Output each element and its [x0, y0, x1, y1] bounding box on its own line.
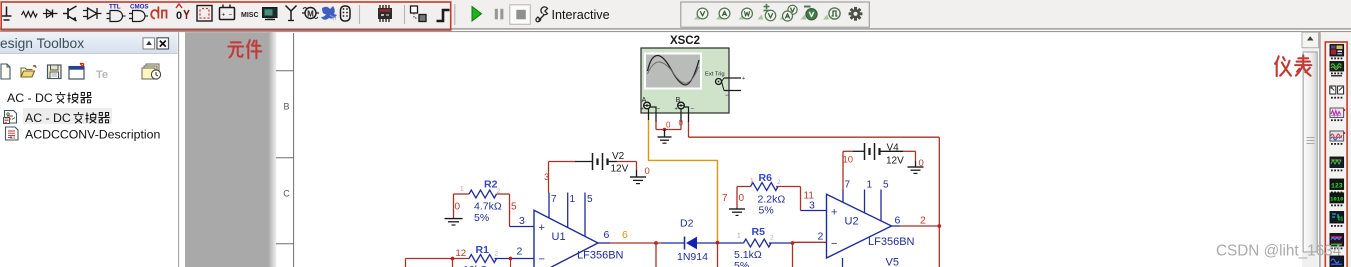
- svg-text:12V: 12V: [611, 164, 629, 175]
- svg-text:2: 2: [777, 179, 781, 186]
- svg-text:5%: 5%: [474, 212, 489, 224]
- svg-text:7: 7: [845, 180, 851, 191]
- svg-text:+: +: [539, 222, 545, 234]
- svg-text:Interactive: Interactive: [552, 8, 610, 22]
- svg-text:−: −: [657, 107, 661, 113]
- svg-text:6: 6: [622, 229, 628, 241]
- svg-text:54: 54: [10, 135, 16, 140]
- svg-text:5: 5: [587, 194, 593, 205]
- svg-text:2: 2: [920, 215, 926, 227]
- svg-text:V2: V2: [612, 151, 625, 162]
- svg-text:C: C: [283, 189, 290, 199]
- svg-text:6: 6: [604, 229, 610, 241]
- svg-text:−: −: [539, 254, 545, 266]
- svg-text:01: 01: [1338, 217, 1344, 223]
- svg-text:Ext Trig: Ext Trig: [705, 72, 725, 78]
- svg-text:1: 1: [750, 178, 754, 185]
- svg-text:R1: R1: [476, 244, 490, 256]
- svg-text:10: 10: [843, 155, 854, 166]
- svg-text:6: 6: [895, 215, 901, 227]
- svg-text:2: 2: [770, 235, 774, 242]
- svg-text:1: 1: [867, 180, 873, 191]
- svg-text:0: 0: [919, 158, 924, 169]
- svg-text:U2: U2: [845, 216, 859, 228]
- svg-text:AC - DC: AC - DC: [25, 111, 71, 125]
- svg-text:B: B: [283, 102, 289, 112]
- svg-text:7: 7: [551, 194, 557, 205]
- svg-text:−: −: [831, 238, 837, 250]
- svg-text:LF356BN: LF356BN: [577, 250, 624, 262]
- svg-text:−: −: [725, 93, 729, 99]
- svg-text:12: 12: [456, 248, 467, 259]
- svg-text:2: 2: [818, 231, 824, 243]
- svg-text:5: 5: [883, 180, 889, 191]
- svg-text:MISC: MISC: [241, 12, 259, 19]
- svg-text:123: 123: [1331, 183, 1343, 190]
- svg-text:1N914: 1N914: [677, 251, 708, 263]
- svg-text:5: 5: [511, 202, 517, 213]
- svg-text:1: 1: [737, 233, 741, 240]
- svg-text:0: 0: [739, 193, 745, 204]
- svg-text:1010: 1010: [1330, 196, 1344, 203]
- svg-text:7: 7: [722, 193, 728, 204]
- svg-text:n: n: [333, 17, 336, 23]
- svg-text:2: 2: [517, 246, 523, 258]
- svg-text:0: 0: [455, 202, 461, 213]
- svg-text:ACDCCONV-Description: ACDCCONV-Description: [25, 128, 160, 142]
- svg-text:0: 0: [645, 166, 650, 177]
- svg-text:+: +: [641, 107, 644, 113]
- svg-text:+: +: [831, 207, 837, 219]
- svg-text:3: 3: [809, 200, 815, 212]
- svg-text:XSC2: XSC2: [670, 35, 700, 47]
- svg-text:Te: Te: [96, 69, 108, 81]
- svg-text:12V: 12V: [886, 156, 904, 167]
- svg-text:0: 0: [679, 119, 684, 128]
- svg-text:+: +: [675, 107, 678, 113]
- svg-text:5%: 5%: [759, 205, 774, 217]
- svg-text:U1: U1: [552, 231, 566, 243]
- svg-text:−: −: [229, 12, 233, 19]
- svg-text:R5: R5: [752, 226, 766, 238]
- svg-text:M: M: [307, 10, 314, 19]
- svg-text:0: 0: [666, 121, 671, 130]
- svg-text:4.7kΩ: 4.7kΩ: [474, 201, 502, 213]
- svg-text:esign Toolbox: esign Toolbox: [0, 36, 84, 51]
- svg-text:0: 0: [176, 10, 182, 22]
- svg-text:TTL: TTL: [109, 4, 121, 11]
- svg-text:3: 3: [519, 215, 525, 227]
- svg-text:V5: V5: [886, 257, 899, 267]
- svg-text:1: 1: [570, 194, 576, 205]
- svg-text:+: +: [742, 76, 745, 82]
- svg-text:AC - DC: AC - DC: [7, 91, 53, 105]
- svg-text:5%: 5%: [734, 260, 749, 267]
- svg-text:CMOS: CMOS: [130, 4, 149, 11]
- svg-text:D2: D2: [680, 218, 694, 230]
- svg-text:CSDN @liht_1634: CSDN @liht_1634: [1216, 243, 1342, 260]
- svg-text:+: +: [222, 12, 226, 19]
- svg-text:2: 2: [497, 188, 501, 195]
- svg-text:V4: V4: [887, 143, 900, 154]
- svg-text:1: 1: [460, 186, 464, 193]
- svg-text:−: −: [691, 107, 695, 113]
- svg-text:2: 2: [495, 251, 499, 258]
- svg-text:LF356BN: LF356BN: [868, 236, 915, 248]
- svg-text:R6: R6: [759, 172, 773, 184]
